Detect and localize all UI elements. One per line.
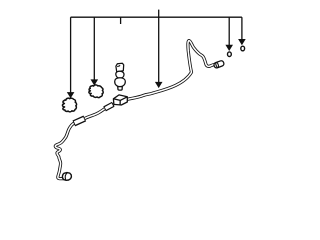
leader arrow 3 (main stem to pipe)	[155, 17, 163, 88]
leader arrow 2 (to grommet 2)	[91, 17, 99, 85]
o-ring 1	[228, 52, 232, 57]
leader arrow 1 (to grommet 1)	[67, 17, 75, 98]
callout stem above bracket	[158, 10, 160, 18]
callout bracket horizontal line	[71, 16, 242, 18]
o-ring 2	[241, 46, 245, 51]
pipe collar fitting (lower left sleeve)	[74, 118, 85, 123]
leader tick (to sensor)	[120, 17, 122, 24]
union block (3D box) on pipe	[113, 95, 127, 105]
pipe end barrel fitting (top right)	[213, 60, 224, 68]
leader arrow 5 (to o-ring 2)	[238, 17, 246, 45]
leader arrow 4 (to o-ring 1)	[225, 17, 233, 51]
pipe end crimp fitting (bottom left)	[62, 173, 71, 181]
pipe assembly main tube	[55, 41, 214, 179]
pipe sleeve before union block	[105, 104, 114, 109]
grommet clip 2 (middle)	[89, 85, 103, 98]
grommet clip 1 (left)	[62, 98, 76, 112]
pressure sensor switch	[115, 63, 126, 90]
